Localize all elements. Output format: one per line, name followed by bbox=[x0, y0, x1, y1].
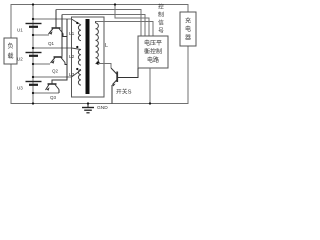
svg-text:制: 制 bbox=[158, 11, 164, 19]
svg-text:负: 负 bbox=[7, 42, 13, 50]
control box label 电压平衡控制电路 bbox=[144, 39, 162, 64]
winding L primary bbox=[96, 21, 99, 64]
junction node dots bbox=[32, 3, 151, 104]
wire top positive rail bbox=[11, 5, 188, 39]
wire primary top bbox=[96, 22, 154, 37]
winding L1 polarity dot bbox=[76, 22, 78, 24]
wire pack sense bbox=[115, 5, 149, 37]
svg-text:GND: GND bbox=[97, 105, 108, 111]
winding L3 bbox=[72, 70, 82, 86]
transistor Q1 bbox=[49, 10, 68, 37]
svg-text:Q1: Q1 bbox=[48, 41, 55, 46]
svg-text:L3: L3 bbox=[69, 72, 75, 78]
wire node B2- branch bbox=[33, 63, 50, 65]
transformer core bbox=[86, 19, 90, 94]
winding L2 bbox=[72, 48, 82, 65]
load box bbox=[4, 38, 17, 64]
wire battery string vertical bbox=[32, 5, 34, 104]
charger label 充电器 bbox=[185, 17, 191, 42]
svg-text:载: 载 bbox=[7, 52, 13, 60]
control signal label 控制信号 bbox=[158, 3, 164, 35]
svg-text:电: 电 bbox=[185, 25, 191, 33]
wire node B3- branch bbox=[33, 92, 59, 94]
svg-text:衡控制: 衡控制 bbox=[144, 48, 162, 56]
transistor switch S bbox=[111, 68, 138, 104]
wire bottom rail bbox=[11, 46, 188, 104]
transistor Q2 bbox=[51, 15, 68, 65]
wire control signal 2 bbox=[62, 15, 145, 37]
charger box bbox=[180, 12, 196, 46]
svg-text:号: 号 bbox=[158, 28, 164, 35]
svg-text:控: 控 bbox=[158, 3, 164, 11]
wire control signal 1 bbox=[56, 10, 141, 37]
svg-text:U2: U2 bbox=[17, 57, 23, 62]
battery U3 bbox=[26, 82, 42, 85]
svg-text:电压平: 电压平 bbox=[144, 39, 162, 47]
wire node B1- branch bbox=[33, 34, 49, 36]
battery U2 bbox=[26, 53, 42, 56]
svg-text:器: 器 bbox=[185, 35, 191, 42]
wire node B1+ branch bbox=[33, 18, 72, 20]
winding L2 polarity dot bbox=[76, 46, 78, 48]
svg-text:Q2: Q2 bbox=[52, 69, 59, 74]
svg-text:电路: 电路 bbox=[147, 56, 159, 64]
svg-text:U3: U3 bbox=[17, 86, 23, 91]
transformer box bbox=[72, 17, 105, 97]
svg-text:U1: U1 bbox=[17, 28, 23, 33]
winding L polarity dot bbox=[96, 61, 99, 64]
svg-text:开关S: 开关S bbox=[116, 88, 132, 96]
wire primary bottom to switch bbox=[98, 64, 111, 69]
svg-text:L2: L2 bbox=[69, 54, 75, 60]
control box bbox=[138, 36, 168, 68]
svg-text:L1: L1 bbox=[69, 31, 75, 37]
svg-text:Q3: Q3 bbox=[50, 95, 57, 100]
svg-text:L: L bbox=[105, 43, 108, 49]
transistor Q3 bbox=[46, 19, 68, 93]
battery U1 bbox=[26, 24, 42, 27]
wire node B3+ branch bbox=[33, 76, 72, 78]
svg-text:充: 充 bbox=[185, 17, 191, 25]
wire node B2+ branch bbox=[33, 47, 72, 49]
winding L1 bbox=[72, 19, 82, 41]
svg-text:信: 信 bbox=[158, 19, 164, 27]
ground bbox=[82, 104, 94, 113]
wire control box to bottom rail bbox=[149, 68, 151, 104]
winding L3 polarity dot bbox=[76, 68, 78, 70]
